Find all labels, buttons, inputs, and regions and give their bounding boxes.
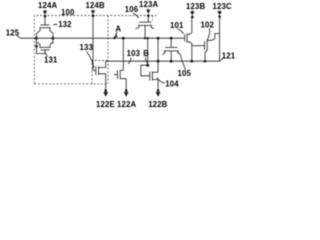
terminal 124B <box>91 10 95 18</box>
svg-text:A: A <box>115 25 121 34</box>
svg-text:124A: 124A <box>38 1 57 10</box>
wire 125 input <box>17 35 37 38</box>
wire left rail <box>35 33 37 44</box>
leader 131 <box>45 52 47 56</box>
node B wire <box>147 38 149 65</box>
svg-text:123A: 123A <box>139 0 158 9</box>
svg-text:103: 103 <box>127 49 141 58</box>
terminal 123C <box>217 10 222 18</box>
leader B <box>146 57 148 63</box>
wire node B to gate 122B <box>141 65 150 76</box>
leader 121 <box>220 58 225 62</box>
junction dots top bus <box>35 37 173 48</box>
svg-text:122B: 122B <box>148 100 167 109</box>
transistor 106 <box>136 16 154 39</box>
dashed box 133 <box>92 61 108 84</box>
svg-text:133: 133 <box>80 43 94 52</box>
leader 105 <box>180 54 186 70</box>
svg-text:122A: 122A <box>117 100 136 109</box>
transistor 122A drain wire <box>122 38 124 70</box>
wire right rail <box>52 33 54 44</box>
dashed box 100 <box>34 16 157 84</box>
junction dots bottom bus <box>157 60 207 63</box>
transistor 131 <box>37 42 53 53</box>
svg-text:B: B <box>143 49 149 58</box>
transistor 101 <box>185 33 192 44</box>
svg-text:124B: 124B <box>86 1 105 10</box>
svg-text:122E: 122E <box>96 100 115 109</box>
node B dot <box>146 64 149 67</box>
transistor 122A <box>114 70 126 92</box>
leader 100 tick <box>62 15 65 16</box>
svg-text:123B: 123B <box>186 2 205 11</box>
leader 132 tilde <box>53 23 57 26</box>
terminal 123A <box>146 9 150 18</box>
wire main bus node A <box>36 37 184 39</box>
leader 133 <box>87 52 95 68</box>
terminal 122A <box>124 89 129 97</box>
svg-text:125: 125 <box>6 29 20 38</box>
leader 102 <box>207 29 210 41</box>
svg-text:132: 132 <box>58 20 72 29</box>
transistor 122E <box>96 61 106 92</box>
svg-text:105: 105 <box>178 69 192 78</box>
leader 106 <box>133 13 139 18</box>
wire gate 102 <box>192 45 205 47</box>
svg-text:101: 101 <box>170 21 184 30</box>
svg-text:131: 131 <box>44 55 58 64</box>
wire top bus to bottom bus at 158 <box>157 38 159 72</box>
transistor 105 <box>162 38 180 61</box>
transistor 132 <box>37 16 53 33</box>
leader 101 <box>177 29 184 34</box>
transistor 102 <box>205 34 220 62</box>
svg-text:121: 121 <box>222 52 236 61</box>
wire 123B rail <box>191 17 193 33</box>
svg-text:106: 106 <box>125 5 139 14</box>
svg-text:102: 102 <box>201 20 215 29</box>
terminal 122E <box>103 89 108 97</box>
terminal 123B <box>190 10 195 18</box>
wire 124B to gate of 122E <box>92 16 94 71</box>
svg-text:100: 100 <box>61 8 75 17</box>
terminal 122B <box>156 89 161 97</box>
leader 103 <box>128 58 131 64</box>
node A pointer <box>113 32 117 38</box>
wire 123C rail <box>219 17 221 62</box>
leader 104 <box>157 78 165 84</box>
svg-text:123C: 123C <box>213 2 232 11</box>
svg-text:104: 104 <box>165 80 179 89</box>
terminal 124A <box>43 10 47 18</box>
transistor 122B <box>150 72 158 93</box>
wire bottom bus <box>106 60 220 62</box>
